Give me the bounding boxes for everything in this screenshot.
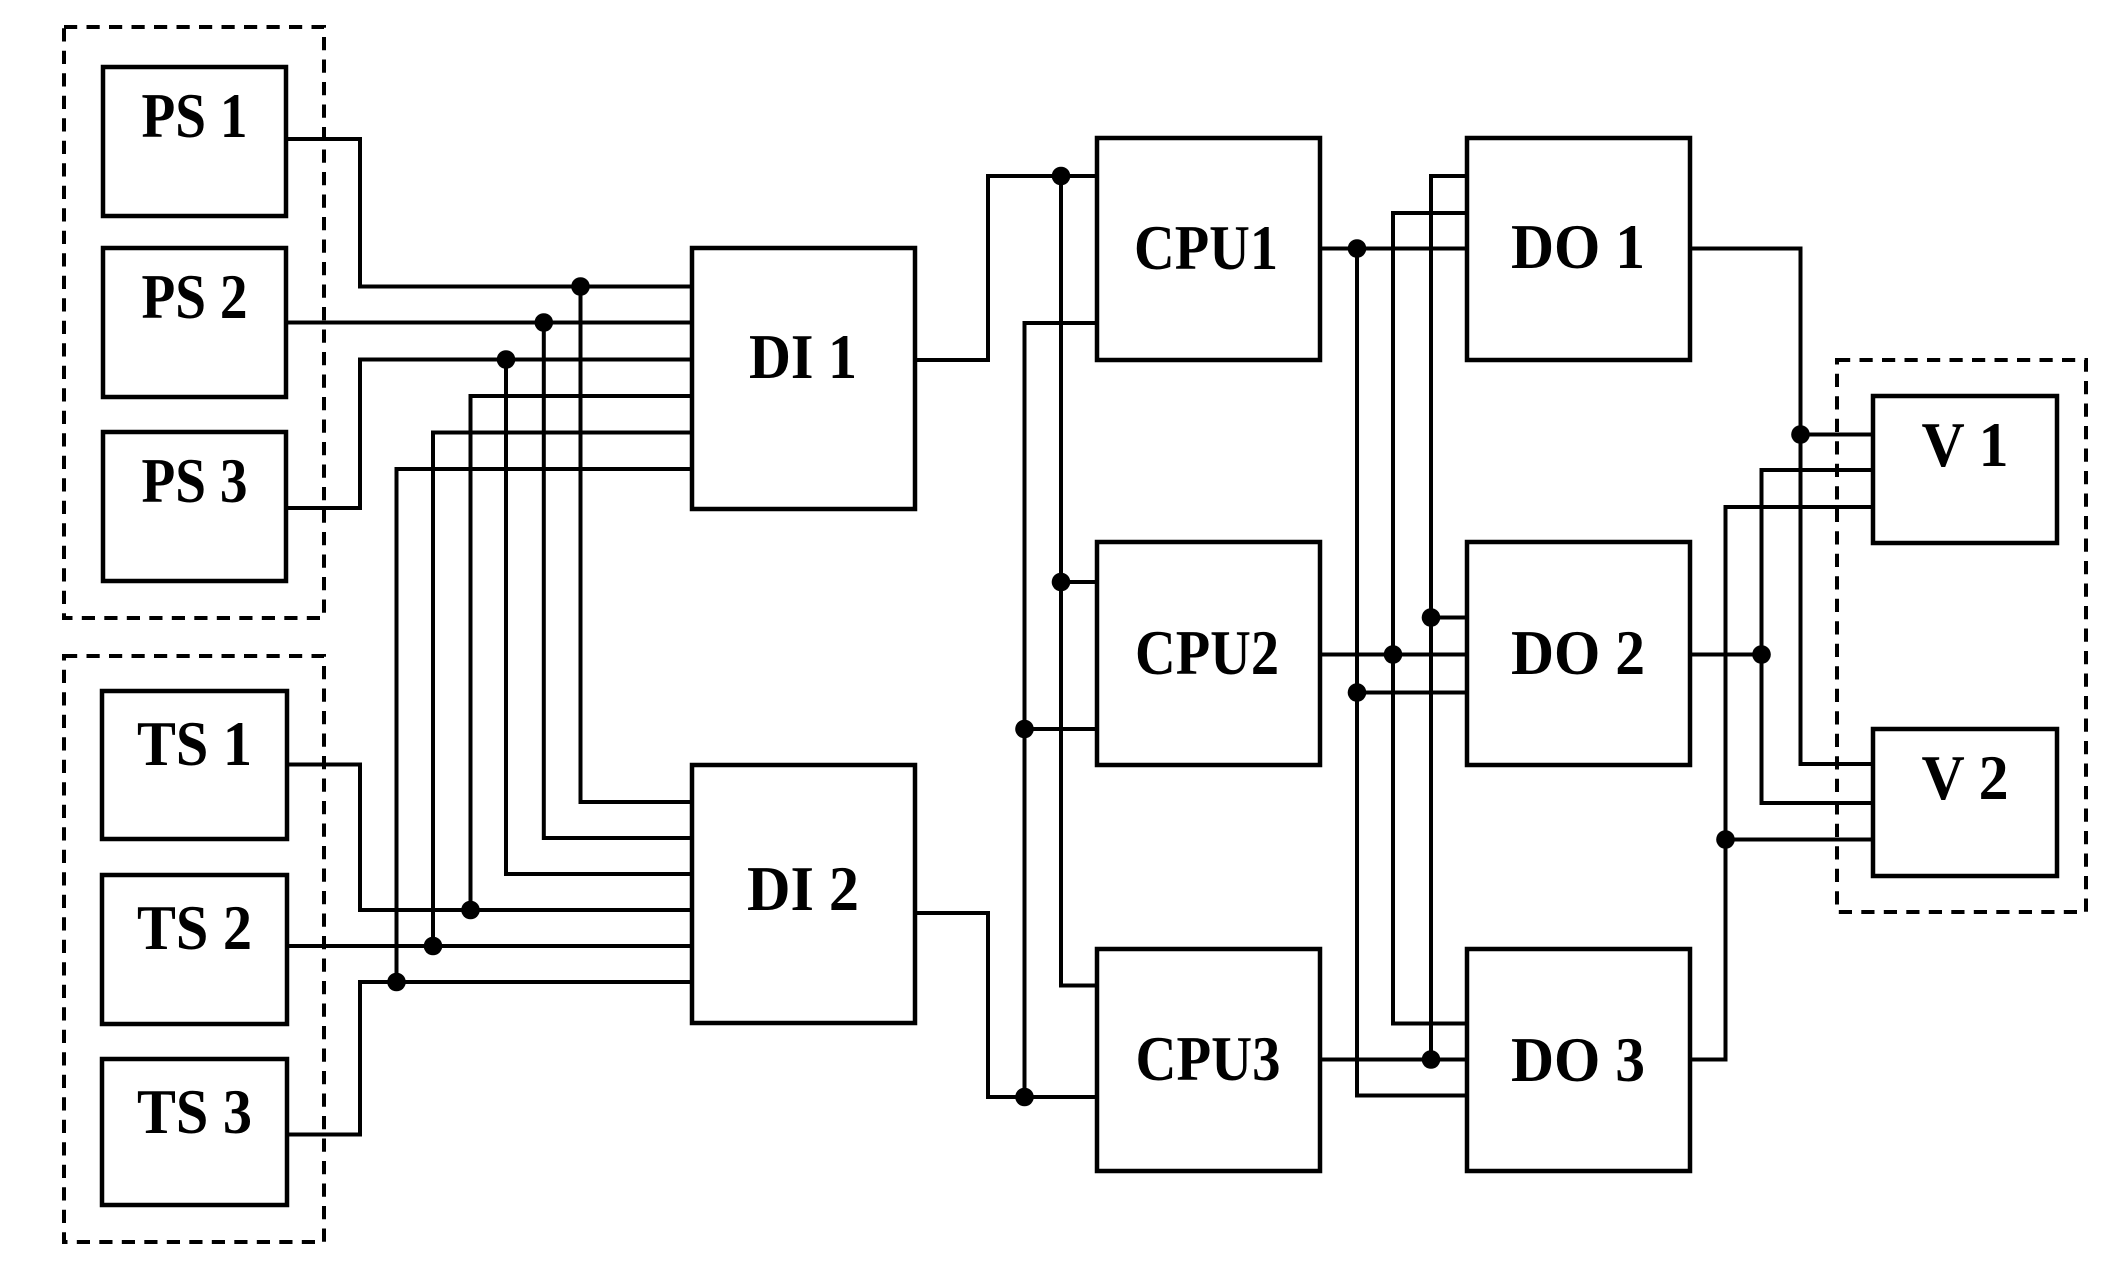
wire CPU2 output to DO2 input 2: [1320, 653, 1467, 657]
wire branch CPU3 to DO2 input 1: [1431, 616, 1467, 620]
junction TS1 line / DI1 bus: [461, 901, 480, 920]
block CPU1: [1097, 138, 1320, 360]
wire DI1 output to CPU1 input 1: [915, 176, 1097, 360]
junction DO2 output / V bus: [1752, 645, 1771, 664]
wire bus CPU3 to DO1 input 1: [1431, 176, 1467, 1060]
svg-text:CPU3: CPU3: [1136, 1024, 1281, 1094]
junction CPU3 output / DO bus: [1422, 1050, 1441, 1069]
block PS3: [103, 432, 286, 581]
svg-text:DO 2: DO 2: [1511, 618, 1645, 688]
junction DO3 bus / V2 input: [1716, 830, 1735, 849]
svg-text:CPU1: CPU1: [1134, 213, 1278, 283]
wire CPU1 output to DO1 input 3: [1320, 247, 1467, 251]
junction CPU2 output / DO bus: [1384, 645, 1403, 664]
svg-text:TS 1: TS 1: [137, 709, 252, 779]
wire branch DO1 to V1 input 1: [1801, 433, 1874, 437]
wire bus CPU1 to DO3 input 3: [1357, 249, 1467, 1096]
block PS2: [103, 248, 286, 397]
wire bus DI2 to CPU1 input 2: [1025, 323, 1098, 1097]
svg-text:DI 1: DI 1: [749, 322, 857, 392]
wire branch PS2 to DI2 input 2: [544, 323, 692, 839]
pressure sensor group dashed box: [64, 27, 324, 618]
junction CPU3 bus / DO2 input: [1422, 608, 1441, 627]
junction DI1 line / CPU bus: [1052, 167, 1071, 186]
block TS1: [102, 691, 287, 839]
wire TS2 output to DI2 input 5: [287, 944, 692, 948]
junction TS2 line / DI1 bus: [424, 937, 443, 956]
wire branch TS1 to DI1 input 4: [471, 396, 693, 910]
svg-text:DI 2: DI 2: [747, 854, 859, 924]
wire bus DO2 to V2 input 2: [1762, 655, 1874, 804]
block TS2: [102, 875, 287, 1024]
block PS1: [103, 67, 286, 216]
junction PS1 line / DI2 bus: [571, 277, 590, 296]
svg-text:PS 3: PS 3: [142, 446, 248, 516]
block DO2: [1467, 542, 1690, 765]
svg-text:DO 3: DO 3: [1511, 1025, 1645, 1095]
svg-text:V 1: V 1: [1922, 410, 2009, 480]
wire bus CPU2 to DO1 input 2: [1393, 213, 1467, 655]
wire TS3 output to DI2 input 6: [287, 982, 692, 1135]
junction DI1 bus / CPU2 input: [1052, 573, 1071, 592]
wire DO3 output to V1 input 3: [1690, 507, 1873, 1060]
temperature sensor group dashed box: [64, 656, 324, 1242]
svg-text:TS 3: TS 3: [137, 1077, 252, 1147]
wire DO1 output to V2 input 1: [1690, 249, 1873, 765]
junction CPU1 output / DO bus: [1348, 239, 1367, 258]
wire CPU3 output to DO3 input 2: [1320, 1058, 1467, 1062]
wire PS3 output to DI1 input 3: [286, 360, 692, 509]
wire branch DO3 to V2 input 3: [1726, 838, 1874, 842]
block V1: [1873, 396, 2057, 543]
wire bus CPU2 to DO3 input 1: [1393, 655, 1467, 1024]
wire DI2 output to CPU3 input 2: [915, 913, 1097, 1097]
block TS3: [102, 1059, 287, 1205]
junction PS3 line / DI2 bus: [497, 350, 516, 369]
wire branch DI2 to CPU2 input 2: [1025, 727, 1098, 731]
block CPU3: [1097, 949, 1320, 1171]
wire branch DI1 to CPU2 input 1: [1061, 580, 1097, 584]
block DO1: [1467, 138, 1690, 360]
block DI2: [692, 765, 915, 1023]
svg-text:DO 1: DO 1: [1511, 212, 1645, 282]
junction DO1 line / V1 input: [1791, 425, 1810, 444]
block CPU2: [1097, 542, 1320, 765]
svg-text:PS 2: PS 2: [142, 262, 248, 332]
wire branch PS1 to DI2 input 1: [581, 287, 693, 803]
block V2: [1873, 729, 2057, 876]
wire bus DI1 to CPU3 input 1: [1061, 176, 1097, 986]
wire DO2 output: [1690, 653, 1762, 657]
junction PS2 line / DI2 bus: [535, 313, 554, 332]
junction CPU1 bus / DO2 input: [1348, 683, 1367, 702]
wire branch PS3 to DI2 input 3: [506, 360, 692, 875]
block DO3: [1467, 949, 1690, 1171]
wire branch CPU1 to DO2 input 3: [1357, 691, 1467, 695]
block DI1: [692, 248, 915, 509]
wire branch TS2 to DI1 input 5: [433, 433, 692, 947]
svg-text:V 2: V 2: [1922, 743, 2009, 813]
svg-text:PS 1: PS 1: [142, 81, 248, 151]
wire PS1 output to DI1 input 1: [286, 139, 692, 287]
junction DI2 line / CPU bus: [1015, 1088, 1034, 1107]
junction DI2 bus / CPU2 input: [1015, 720, 1034, 739]
valve group dashed box: [1837, 360, 2086, 912]
svg-text:TS 2: TS 2: [137, 893, 252, 963]
wire TS1 output to DI2 input 4: [287, 765, 692, 911]
svg-text:CPU2: CPU2: [1135, 618, 1279, 688]
junction TS3 line / DI1 bus: [387, 973, 406, 992]
wire PS2 output to DI1 input 2: [286, 321, 692, 325]
wire branch TS3 to DI1 input 6: [397, 469, 693, 982]
wire bus DO2 to V1 input 2: [1762, 470, 1874, 655]
